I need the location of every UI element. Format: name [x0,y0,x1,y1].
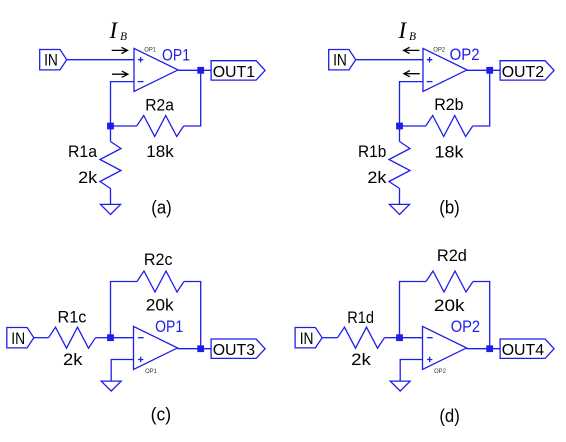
op-amp OP1 body [134,48,178,91]
svg-text:OP1: OP1 [155,317,183,336]
svg-text:20k: 20k [146,296,174,315]
wire input node to op-amp - input (d) [400,337,423,339]
resistor R1c [49,327,96,348]
junction output node (d) [486,345,493,352]
svg-text:IN: IN [333,52,347,70]
svg-text:(a): (a) [151,197,172,217]
svg-text:OP1: OP1 [162,46,190,65]
wire IN to R1d [322,337,337,339]
wire input node to op-amp - input (c) [111,337,134,339]
wire feedback node to R1a [110,126,112,142]
ground (c) [101,381,121,391]
wire op-amp + input to ground (d) [400,360,422,382]
port IN (d) [295,328,322,348]
wire op-amp output to OUT2 [467,69,500,71]
wire R1b to ground [399,189,401,205]
wire R1d to input node [385,337,400,339]
wire op-amp output to OUT1 [178,69,211,71]
svg-text:R1a: R1a [68,142,98,161]
op-amp OP1 minus input mark (c) [138,337,144,339]
svg-text:2k: 2k [367,168,387,187]
svg-text:OP2: OP2 [433,46,445,53]
wire output node down to R2a [184,70,201,126]
svg-text:IN: IN [300,330,314,348]
svg-text:(d): (d) [439,406,460,426]
wire feedback node to op-amp - input (b) [400,82,424,126]
port OUT3 [211,339,265,358]
svg-text:2k: 2k [351,350,371,369]
wire R2b to feedback node [400,125,426,127]
wire R2a to feedback node [111,125,137,127]
svg-text:2k: 2k [63,350,83,369]
svg-text:OUT2: OUT2 [502,64,545,81]
wire IN to op-amp + input (b) [356,59,423,61]
wire R1c to input node [96,337,111,339]
op-amp OP1 body (c) [134,326,178,369]
svg-text:OP2: OP2 [450,45,480,64]
svg-text:R1c: R1c [58,307,87,326]
svg-text:OP1: OP1 [145,368,157,375]
svg-text:OP2: OP2 [451,317,480,336]
svg-text:IN: IN [11,330,25,348]
svg-text:B: B [120,31,127,43]
svg-text:R2d: R2d [437,246,467,265]
svg-text:20k: 20k [434,296,465,315]
svg-text:OUT4: OUT4 [502,342,545,359]
svg-text:R2c: R2c [144,250,173,269]
wire R2c down to output node [184,282,201,349]
op-amp OP2 minus input mark (d) [427,337,433,339]
svg-text:IN: IN [44,52,58,70]
svg-text:R2a: R2a [145,96,174,115]
svg-text:18k: 18k [435,143,465,162]
resistor R2c [137,271,184,292]
junction feedback node (b) [396,123,403,130]
port OUT1 [211,61,265,80]
svg-text:I: I [109,18,119,43]
wire input node up to R2c [111,282,138,338]
ground (a) [101,204,121,214]
op-amp OP1 plus input mark [138,57,143,62]
ground (d) [390,381,410,391]
resistor R1b [389,142,410,189]
junction output node (b) [486,67,493,74]
port IN (a) [40,50,67,70]
wire op-amp + input to ground (c) [111,360,133,382]
junction input node (d) [396,334,403,341]
wire output node down to R2b [473,70,490,126]
bias current arrow out of - input (b) [404,71,420,77]
resistor R1a [100,142,121,189]
svg-text:I: I [398,18,408,43]
op-amp OP2 body (d) [423,326,467,369]
wire feedback node to R1b [399,126,401,142]
svg-text:(b): (b) [439,197,460,217]
port IN (b) [329,50,356,70]
svg-text:B: B [409,31,416,43]
op-amp OP2 plus input mark [427,57,432,62]
wire op-amp output to OUT3 [178,348,212,350]
svg-text:2k: 2k [78,168,98,187]
port OUT4 [500,339,554,358]
op-amp OP2 minus input mark [427,81,433,83]
port OUT2 [500,61,554,80]
wire IN to R1c [34,337,49,339]
wire IN to op-amp + input [67,59,134,61]
resistor R2b [426,116,473,137]
wire input node up to R2d [400,282,427,338]
svg-text:R1d: R1d [347,308,374,327]
resistor R1d [338,327,385,348]
junction input node (c) [107,334,114,341]
svg-text:OUT1: OUT1 [213,64,256,81]
svg-text:(c): (c) [151,404,172,424]
svg-text:OUT3: OUT3 [213,342,256,359]
svg-text:OP1: OP1 [144,46,156,53]
wire feedback node to op-amp - input [111,82,135,126]
wire R2d down to output node [473,282,490,349]
svg-text:18k: 18k [146,142,174,161]
resistor R2d [426,271,473,292]
junction output node (c) [197,345,204,352]
bias current arrow into - input [112,71,128,77]
junction output node (a) [197,67,204,74]
op-amp OP1 plus input mark (c) [138,357,143,362]
wire op-amp output to OUT4 [467,348,501,350]
ground (b) [390,204,410,214]
op-amp OP2 body [423,48,467,91]
op-amp OP1 minus input mark [138,81,144,83]
port IN (c) [7,328,34,348]
svg-text:OP2: OP2 [434,368,446,375]
wire R1a to ground [110,189,112,205]
bias current arrow out of + input (b) [404,47,420,53]
bias current arrow into + input [112,47,128,53]
svg-text:R2b: R2b [434,95,463,114]
svg-text:R1b: R1b [358,142,386,161]
junction feedback node (a) [107,123,114,130]
resistor R2a [137,116,184,137]
op-amp OP2 plus input mark (d) [427,357,432,362]
